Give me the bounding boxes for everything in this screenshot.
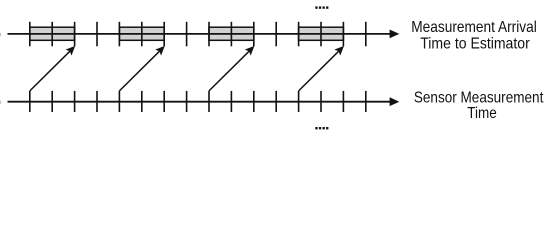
- wire: faint clipped line stub at left edge of bottom axis: [0, 101, 1, 104]
- measurement interval box 1: [30, 27, 75, 40]
- svg-text:Time: Time: [467, 105, 497, 122]
- transmission arrow 3: [209, 46, 254, 91]
- transmission arrow 2: [119, 46, 164, 91]
- transmission arrow 1 (sensor time to arrival time): [30, 46, 75, 91]
- label: Measurement Arrival Time to Estimator: [411, 19, 537, 52]
- continuation dots (bottom): [315, 127, 328, 129]
- bottom timeline tick marks: [30, 91, 366, 112]
- wire: faint clipped line stub at left edge of top axis: [0, 33, 1, 36]
- measurement interval box 2: [119, 27, 164, 40]
- top timeline axis (Measurement Arrival Time): [8, 30, 400, 39]
- continuation dots (top): [315, 6, 328, 8]
- svg-text:Time to Estimator: Time to Estimator: [420, 35, 530, 52]
- transmission arrow 4: [299, 46, 344, 91]
- label: Sensor Measurement Time: [414, 89, 544, 122]
- measurement interval box 4: [299, 27, 344, 40]
- measurement interval box 3: [209, 27, 254, 40]
- top timeline tick marks: [30, 22, 366, 47]
- bottom timeline axis (Sensor Measurement Time): [8, 97, 400, 106]
- svg-text:Sensor Measurement: Sensor Measurement: [414, 89, 544, 106]
- svg-text:Measurement Arrival: Measurement Arrival: [411, 19, 537, 36]
